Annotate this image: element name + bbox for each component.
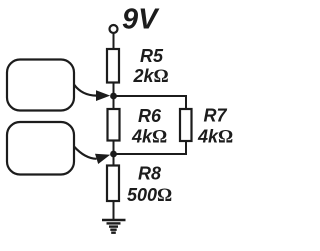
resistor R7 body	[180, 109, 192, 141]
callout box 1	[7, 60, 74, 111]
supply terminal (open circle)	[110, 25, 118, 33]
node B junction dot	[110, 151, 117, 158]
node A junction dot	[110, 93, 117, 100]
callout 1 arrowhead	[96, 90, 110, 101]
svg-text:R7: R7	[204, 106, 228, 126]
wire node B to R8	[113, 154, 115, 166]
wire terminal to R5	[113, 34, 115, 50]
wire R7 to node B	[114, 141, 187, 154]
svg-text:9V: 9V	[122, 4, 160, 36]
callout 2 arrowhead	[95, 150, 112, 164]
svg-text:R6: R6	[138, 106, 162, 126]
svg-text:500Ω: 500Ω	[127, 185, 172, 206]
resistor R8 body	[107, 166, 119, 202]
wire node A to right branch	[114, 96, 187, 109]
resistor R5 body	[107, 49, 119, 83]
wire R8 to ground	[113, 201, 115, 220]
svg-text:R8: R8	[138, 164, 161, 184]
callout 2 leader wire	[74, 147, 97, 159]
resistor R6 body	[108, 109, 120, 141]
wire R5 to node A	[113, 83, 115, 97]
callout box 2	[7, 122, 74, 175]
wire node A to R6	[113, 96, 115, 109]
svg-text:4kΩ: 4kΩ	[197, 127, 233, 148]
ground symbol	[102, 220, 126, 233]
svg-text:R5: R5	[140, 46, 164, 66]
wire R6 to node B	[113, 141, 115, 155]
callout 1 leader wire	[74, 85, 97, 96]
svg-text:4kΩ: 4kΩ	[131, 127, 167, 148]
svg-text:2kΩ: 2kΩ	[133, 66, 169, 87]
